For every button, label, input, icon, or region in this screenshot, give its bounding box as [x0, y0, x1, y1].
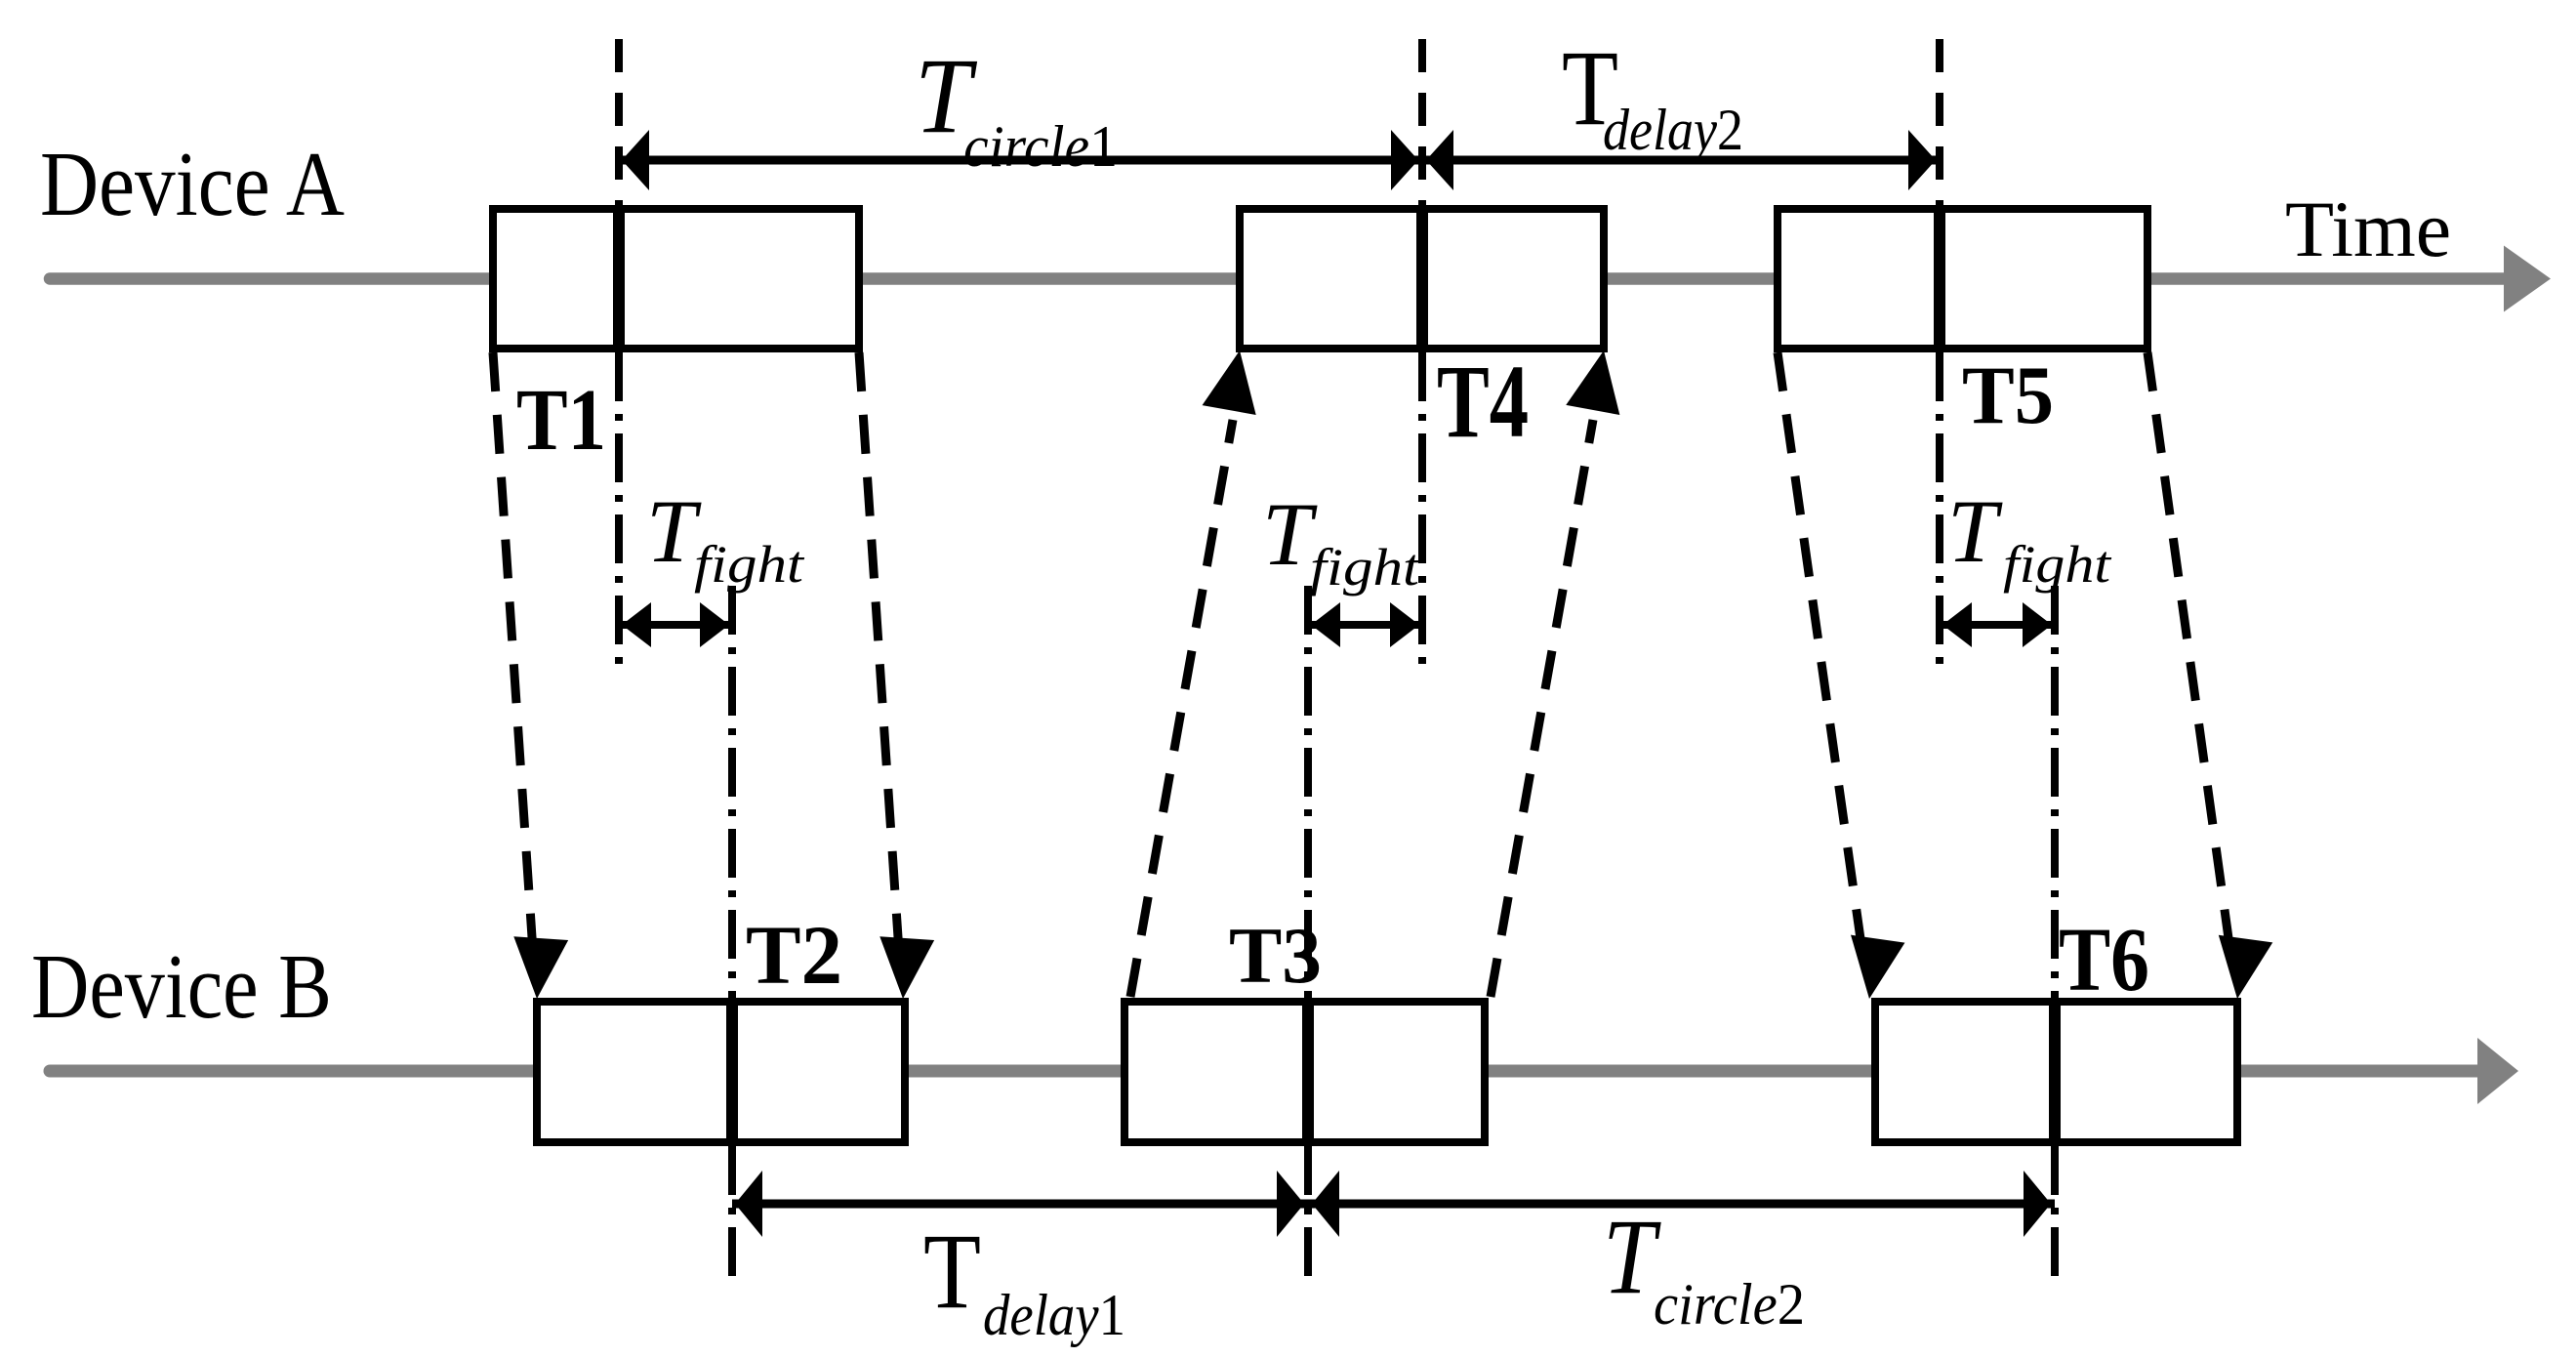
- svg-text:T: T: [1947, 481, 2003, 581]
- svg-text:circle2: circle2: [1654, 1272, 1805, 1337]
- svg-text:fight: fight: [1310, 538, 1421, 597]
- svg-text:Time: Time: [2285, 185, 2451, 273]
- svg-text:fight: fight: [694, 535, 805, 594]
- svg-text:T2: T2: [746, 908, 842, 1002]
- svg-text:T4: T4: [1437, 345, 1529, 460]
- svg-text:T: T: [923, 1212, 981, 1331]
- svg-text:T3: T3: [1229, 911, 1322, 1000]
- svg-text:T: T: [1603, 1197, 1661, 1316]
- svg-text:delay1: delay1: [983, 1283, 1125, 1347]
- svg-text:Device B: Device B: [31, 936, 332, 1038]
- svg-text:T5: T5: [1962, 350, 2054, 441]
- svg-text:fight: fight: [2003, 535, 2112, 594]
- svg-text:T6: T6: [2059, 910, 2149, 1010]
- svg-text:T1: T1: [516, 372, 606, 469]
- svg-text:circle1: circle1: [963, 114, 1118, 179]
- svg-text:Device A: Device A: [40, 134, 345, 235]
- svg-text:delay2: delay2: [1603, 98, 1743, 162]
